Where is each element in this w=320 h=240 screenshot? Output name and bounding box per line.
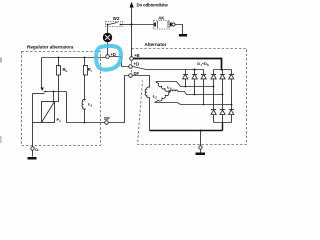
stator phase 1 (top) [156,82,169,91]
node: +B bus junction [221,69,223,71]
terminal DF (regulator) [105,121,109,125]
wire: lamp lower lead [107,43,109,55]
node: rail-Rr junction [84,57,86,59]
wire: negative bus [214,122,232,124]
regulator box (dashed) [22,52,101,146]
field winding L2 (rotor) [145,87,149,98]
diode D2 [192,74,197,79]
relay coil P1 (box with diagonal) [42,102,55,123]
terminal: alternator ground [199,146,202,149]
node: aux bus junction [194,69,196,71]
svg-text:WZ: WZ [113,16,120,21]
diode D7 (negative) [211,110,216,115]
terminal +B (alternator) [130,57,134,61]
diode D9 (negative) [229,110,235,115]
wire: +B diode bus [214,69,232,71]
wire: ground drop [200,131,202,146]
node: armature-coil junction [53,91,55,93]
svg-text:DF: DF [134,71,140,76]
ground (alternator) [196,153,206,156]
wire: +D to alternator [110,57,129,67]
node: main phase junctions [213,86,215,88]
node: star point [168,90,170,92]
wire: ground vertical to D- [32,94,34,147]
wire: main diode columns [214,79,232,110]
node: choke-DF junction [84,122,86,124]
diode D8 (negative) [220,110,225,115]
wire: field to ground rail [149,98,151,131]
resistor Rr [84,66,88,76]
svg-text:+D: +D [110,52,115,57]
node: aux phase junctions [185,86,187,88]
wire: negative diode stubs [214,115,232,123]
ground (regulator) [28,157,37,160]
resistor Rb [57,66,61,76]
svg-text:Do odbiorników: Do odbiorników [137,3,169,8]
diode D3 [201,74,206,79]
svg-text:DF: DF [104,116,110,121]
wire: lamp upper lead [107,25,109,34]
wire: armature to DF terminal [67,92,106,123]
wire: main vertical to +B [131,25,133,57]
node: ground tap [200,130,202,132]
svg-text:+D: +D [134,62,139,67]
battery AK (dashed box) [154,21,170,30]
terminal D- [31,147,34,150]
wire: DF link to alternator [109,76,129,123]
wire: coil top lead [53,92,55,102]
wire: regulator +D rail [42,57,106,59]
wire: DF to field winding [133,76,150,88]
cyan highlight ring (annotation) [96,46,121,70]
terminal: battery clamp [172,23,175,26]
wire: +D rail to aux diodes [133,67,204,70]
wire: to battery [132,24,155,26]
wire: battery to ground [175,25,182,35]
switch blade [109,23,118,25]
terminal +D (alternator) [129,65,133,69]
node: negative bus junction [222,122,224,124]
diode D4 [211,74,216,79]
svg-text:AK: AK [158,15,165,20]
diode D5 [220,74,225,79]
wire: armature line [44,91,67,93]
contact arrow (moving contact) [41,88,44,91]
wire: battery right lead [171,24,174,26]
wire: contact drop from rail [41,58,43,88]
switch contact dots [107,24,109,26]
svg-text:Alternator: Alternator [145,42,167,47]
wire: bottom ground rail (thick) [150,130,223,132]
wire: to ground symbol [200,150,202,153]
stator winding L3 (star) [155,82,232,105]
alternator box (dashed) [132,49,247,145]
wire: +B thick line [134,59,222,69]
diode D1 [183,74,189,79]
terminal +D (regulator) [106,55,110,59]
wire: D- to ground [32,151,34,157]
wire: aux diode stubs to phases [186,79,204,105]
node: contact point [45,91,47,93]
node: rail-Rb junction [58,57,60,59]
svg-text:D-: D- [35,147,40,152]
lamp LK (charge indicator) [103,33,112,42]
wire: Rb top lead [58,58,60,67]
stator phase 2 (middle) [170,90,177,91]
wire: Rr top lead [84,58,86,66]
svg-text:Regulator alternatora: Regulator alternatora [27,44,74,49]
battery plates [154,21,171,28]
wire: choke to DF wire [84,109,86,123]
arrow: to consumers [131,7,133,25]
wire: Rb bottom lead [55,75,59,102]
wire: Rr to choke [84,75,86,101]
switch WZ (ignition), dashed box [106,22,123,27]
edge smudge bottom [0,136,2,143]
svg-text:+B: +B [134,53,139,58]
wire: switch to main vertical [121,24,132,26]
edge smudge top [0,58,2,63]
wire: lower fixed contact (ground) [33,93,45,95]
stator phase 3 (bottom) [155,92,169,102]
terminal DF (alternator) [129,74,133,78]
wire: coil to ground link [33,122,42,124]
choke L1 (coil) [82,99,86,109]
wire: negative drop (thick) [222,123,224,131]
node: main junction [131,24,133,26]
ground (battery) [179,34,187,37]
diode D6 [229,74,235,79]
